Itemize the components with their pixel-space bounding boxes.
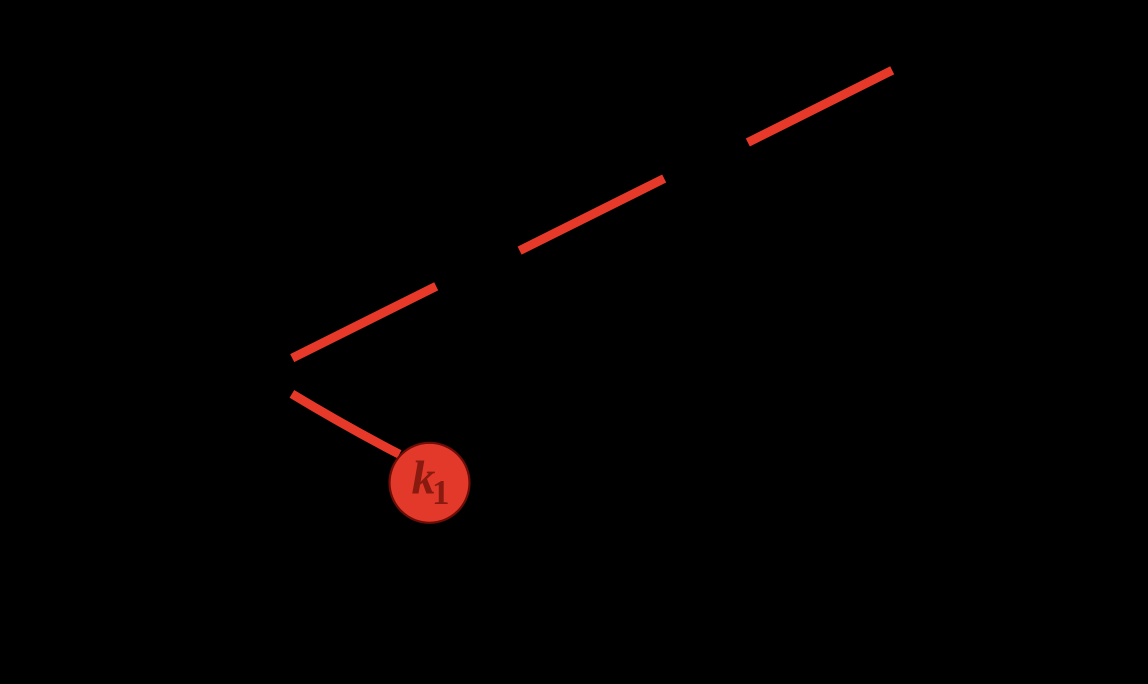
wire red solid edge from node A to node k1 [292, 394, 400, 454]
wire red dashed edge segment A (node C to node D) [748, 70, 892, 142]
wire red dashed edge segment C (node A to node B) [292, 286, 436, 358]
svg-text:1: 1 [432, 473, 450, 512]
wire red dashed edge segment B (node B to node C) [520, 179, 665, 251]
node k1 circle [390, 443, 470, 523]
